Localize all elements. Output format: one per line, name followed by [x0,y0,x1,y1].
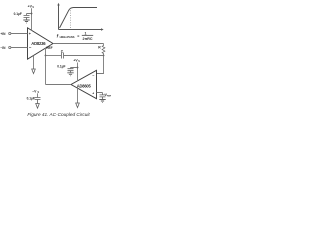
graph dashed corner-frequency line [70,10,72,28]
wire -VS pin of in-amp [33,56,35,70]
wire feedback line (REF node to C) [46,55,62,57]
junction dot [77,67,79,69]
svg-text:+: + [92,92,94,96]
node -IN terminal [9,46,11,48]
in-amp U1 AD8236 triangle [28,28,54,59]
svg-text:S: S [78,61,80,63]
node R/C junction [103,55,105,57]
svg-text:0.1µF: 0.1µF [14,12,22,16]
capacitor C [62,53,64,59]
svg-text:−: − [92,74,94,78]
ground (in-amp bypass) [23,20,29,23]
wire to bypass cap [71,67,78,70]
node +IN terminal [9,32,11,34]
svg-text:−: − [29,45,32,50]
svg-text:−V: −V [32,90,37,94]
wire inverting input of op-amp [97,56,104,74]
capacitor 0.1uF (in-amp bypass) [24,16,30,20]
-VS arrow (in-amp) [32,69,36,74]
ground (VREF bypass) [99,100,105,103]
svg-text:AD8605: AD8605 [77,83,92,88]
wire +VS down to op-amp top edge [77,63,79,82]
wire non-inverting input to VREF node [97,93,103,95]
wire +VS down to in-amp [31,8,33,31]
svg-text:HIGH-PASS: HIGH-PASS [60,35,75,39]
graph x-axis arrowhead [101,28,104,30]
wire -VS pin of op-amp [77,88,79,103]
formula f_HIGH-PASS = 1/(2piRC) [57,31,94,41]
svg-text:0.1µF: 0.1µF [27,96,35,100]
svg-text:0.1µF: 0.1µF [57,65,65,69]
svg-text:REF: REF [107,95,111,97]
svg-text:Figure 41. AC-Coupled Circuit: Figure 41. AC-Coupled Circuit [27,112,90,117]
-VS arrow (stack) [36,104,40,109]
wire op-amp output to REF net [46,56,72,85]
junction dot [31,13,33,15]
wire -VS stack [37,93,39,97]
capacitor 0.1uF (op-amp bypass) [68,69,74,73]
wire REF pin down [45,48,47,56]
svg-text:REF: REF [46,46,52,50]
wire to bypass cap C-byp1 [27,14,32,16]
svg-text:−IN: −IN [0,46,6,50]
capacitor 0.1uF (negative supply bypass) [35,98,41,104]
graph y-axis [58,5,60,30]
capacitor (VREF bypass) [100,95,106,99]
wire C to R/C junction [64,55,104,57]
svg-text:f: f [57,33,59,38]
wire -IN to in-amp [11,47,28,49]
wire in-amp output to resistor R [53,43,104,45]
svg-text:AD8236: AD8236 [31,41,46,46]
svg-text:+IN: +IN [0,32,6,36]
svg-text:=: = [77,34,79,38]
op-amp U2 AD8605 triangle [71,70,97,98]
-VS arrow (op-amp) [76,103,80,108]
resistor R [102,44,105,56]
graph y-axis arrowhead [57,3,59,6]
svg-text:S: S [32,7,34,9]
svg-text:2πRC: 2πRC [83,37,93,41]
graph x-axis [59,29,102,31]
wire +IN to in-amp [11,33,28,35]
svg-text:1: 1 [85,31,87,35]
ground (op-amp bypass) [67,73,73,76]
graph response curve [60,8,98,29]
node REF junction [45,55,47,57]
svg-text:R: R [98,46,101,50]
